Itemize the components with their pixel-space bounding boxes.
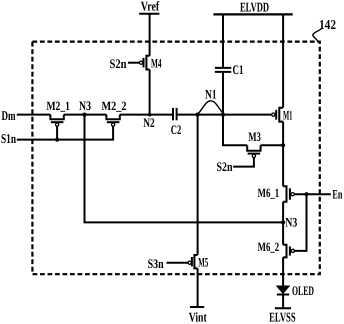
capacitor C2 — [172, 108, 174, 120]
junction dot M3 drain / M1 source — [281, 143, 285, 147]
svg-text:N1: N1 — [205, 86, 217, 101]
wire M4 source to node N2 — [149, 70, 151, 115]
wire M2_1 gate to S1n — [56, 126, 58, 139]
label C2 — [171, 122, 182, 137]
svg-text:S1n: S1n — [1, 131, 16, 146]
svg-text:N3: N3 — [285, 214, 297, 229]
terminal Vint — [190, 306, 204, 308]
svg-text:M6_1: M6_1 — [258, 186, 280, 200]
wire ELVDD to C1 top plate — [222, 14, 224, 67]
leader brace for node N1 — [198, 101, 223, 114]
svg-text:Dm: Dm — [2, 108, 16, 123]
transistor M2_2 — [105, 115, 120, 120]
wire M6_2 source to OLED anode — [282, 257, 284, 286]
wire N1 down to M5 drain — [197, 115, 199, 255]
wire S2n to M4 gate — [128, 62, 139, 64]
svg-text:En: En — [332, 186, 342, 201]
label M3 — [248, 129, 261, 144]
wire C1 bottom plate to node N1 — [222, 72, 224, 115]
terminal ELVSS — [275, 307, 291, 309]
node N3 junction dot — [82, 113, 86, 117]
wire M3 gate to S2n — [233, 158, 254, 167]
capacitor C1 — [215, 67, 231, 69]
svg-text:N2: N2 — [143, 115, 155, 130]
node N1 right junction dot — [221, 113, 225, 117]
diode OLED — [277, 286, 289, 293]
wire En — [294, 193, 331, 195]
svg-text:C1: C1 — [233, 62, 244, 77]
dashed pixel-circuit boundary box — [32, 42, 319, 275]
label S2n (M3 gate signal) — [217, 159, 234, 174]
label M4 — [151, 55, 162, 70]
power rail ELVDD — [240, 0, 269, 14]
label OLED — [292, 283, 314, 298]
transistor M3 — [246, 145, 261, 151]
label M2_2 — [102, 99, 127, 113]
svg-text:M2_2: M2_2 — [102, 99, 127, 113]
svg-text:M3: M3 — [248, 129, 261, 144]
svg-text:OLED: OLED — [292, 283, 314, 298]
wire ELVDD to M1 drain — [282, 14, 284, 107]
label M6_2 — [258, 240, 280, 254]
transistor M4 — [146, 56, 149, 70]
wire N1 down to M3 source — [223, 115, 247, 146]
transistor M2_1 — [49, 115, 64, 120]
svg-text:M5: M5 — [198, 254, 208, 269]
wire M5 source to Vint terminal — [197, 268, 199, 306]
transistor M1 — [279, 108, 283, 122]
label M5 — [198, 254, 208, 269]
svg-text:M6_2: M6_2 — [258, 240, 280, 254]
transistor M5 — [194, 255, 197, 268]
svg-text:C2: C2 — [171, 122, 182, 137]
wire C2 to node N1 to M1 gate — [178, 114, 272, 116]
wire OLED cathode to ELVSS terminal — [282, 295, 284, 309]
wire node N3 from M2 stage to M6 stage — [85, 115, 284, 223]
wire M3 drain to M1 source line — [261, 144, 284, 146]
label S3n — [148, 256, 165, 271]
svg-text:M4: M4 — [151, 55, 162, 70]
wire Vref to M4 drain — [149, 14, 151, 56]
label M1 — [283, 108, 293, 123]
label N2 — [143, 115, 155, 130]
label Dm — [2, 108, 16, 123]
svg-text:N3: N3 — [79, 98, 91, 113]
wire En to M6_2 gate — [294, 194, 306, 251]
label S2n (M4 gate signal) — [110, 56, 128, 71]
wire M2_1 to M2_2 — [64, 114, 107, 116]
transistor M6_2 — [283, 245, 286, 258]
svg-text:Vint: Vint — [189, 310, 207, 324]
svg-text:S3n: S3n — [148, 256, 165, 271]
svg-text:M1: M1 — [283, 108, 293, 123]
label S1n — [1, 131, 16, 146]
svg-text:ELVSS: ELVSS — [269, 310, 296, 324]
label ELVSS — [269, 310, 296, 324]
label 142 — [319, 17, 336, 32]
svg-text:Vref: Vref — [141, 0, 160, 13]
wire Dm input — [17, 114, 51, 116]
label En — [332, 186, 342, 201]
svg-text:M2_1: M2_1 — [46, 99, 70, 113]
leader line for 142 — [313, 29, 322, 42]
svg-text:S2n: S2n — [110, 56, 128, 71]
junction dot on En wire — [304, 192, 308, 196]
wire M1 source down to M6_1 drain — [282, 122, 284, 187]
label Vint — [189, 310, 207, 324]
terminal Vref — [141, 0, 160, 13]
wire M6_1 source to node N3 to M6_2 drain — [282, 202, 284, 245]
wire S1n to M2_2 gate — [17, 126, 113, 139]
label N3 (right) — [285, 214, 297, 229]
wire S3n to M5 gate — [167, 262, 189, 264]
transistor M6_1 — [283, 186, 286, 201]
label M6_1 — [258, 186, 280, 200]
junction dot M2_1 gate on S1n — [55, 138, 59, 142]
label M2_1 — [46, 99, 70, 113]
node N2 junction dot — [148, 113, 152, 117]
wire M2_2 to node N2 to C2 — [120, 114, 172, 116]
node N3 junction dot (right) — [281, 220, 285, 224]
svg-text:ELVDD: ELVDD — [240, 0, 269, 14]
label N3 (top) — [79, 98, 91, 113]
node N1 left junction dot — [196, 113, 200, 117]
label C1 — [233, 62, 244, 77]
label N1 — [205, 86, 217, 101]
svg-text:S2n: S2n — [217, 159, 234, 174]
